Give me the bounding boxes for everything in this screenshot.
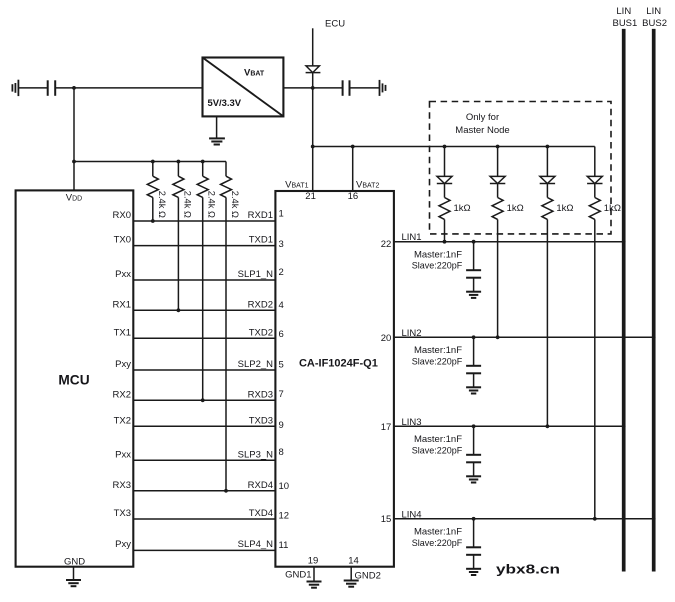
svg-text:LIN: LIN (646, 6, 661, 17)
svg-text:SLP1_N: SLP1_N (238, 269, 274, 280)
svg-text:TX3: TX3 (114, 508, 131, 519)
svg-text:19: 19 (308, 556, 319, 567)
svg-text:9: 9 (279, 420, 284, 431)
svg-text:RXD2: RXD2 (248, 299, 273, 310)
svg-text:17: 17 (381, 422, 392, 433)
node (branch 2 on VBAT rail) (496, 145, 500, 149)
wire (VBAT2 stem, pin 16) (352, 147, 354, 192)
svg-text:20: 20 (381, 333, 392, 344)
svg-text:MCU: MCU (58, 371, 89, 387)
node (branch 1 on VBAT rail) (443, 145, 447, 149)
svg-text:TXD2: TXD2 (249, 327, 273, 338)
svg-text:RXD1: RXD1 (248, 210, 273, 221)
node (branch 3 on VBAT rail) (546, 145, 550, 149)
node (VDD wire junction) (72, 86, 76, 90)
ground (MCU) (73, 567, 75, 580)
ground (GND2) (344, 581, 359, 587)
wire row 12 (Pxy to SLP4_N) (133, 549, 275, 551)
svg-text:Master:1nF: Master:1nF (414, 527, 462, 538)
ground (top-left, sideways) (12, 80, 18, 96)
svg-text:BUS2: BUS2 (642, 18, 667, 29)
svg-text:TXD3: TXD3 (249, 415, 273, 426)
svg-text:7: 7 (279, 389, 284, 400)
capacitor C1 (VDD decoupling, top-left) (48, 80, 56, 96)
svg-text:TX1: TX1 (114, 327, 131, 338)
net LIN BUS2 (vertical bus) (652, 29, 656, 572)
wire (VDD stem into MCU) (73, 162, 75, 191)
svg-text:1kΩ: 1kΩ (556, 203, 573, 214)
svg-text:2.4k Ω: 2.4k Ω (230, 191, 240, 218)
wire row 7 (RX2 to RXD3) (133, 399, 275, 401)
wire (ground to C1) (18, 87, 47, 89)
svg-text:2: 2 (279, 267, 284, 278)
ground (C5) (466, 476, 481, 482)
svg-text:1kΩ: 1kΩ (454, 203, 471, 214)
wire (VBAT1 stem, pin 21) (312, 147, 314, 192)
wire (branch 3 lead) (546, 147, 548, 177)
wire LIN1 (394, 241, 624, 243)
diode D4 (587, 176, 602, 183)
svg-text:BUS1: BUS1 (612, 18, 637, 29)
wire (branch 4 lead) (594, 147, 596, 177)
svg-text:SLP4_N: SLP4_N (238, 539, 274, 550)
svg-text:Pxy: Pxy (115, 359, 131, 370)
svg-text:8: 8 (279, 447, 284, 458)
wire (C2 to ground) (350, 87, 380, 89)
capacitor C4 (LIN2) (472, 335, 476, 339)
wire (branch 3 to LIN3) (546, 219, 548, 426)
svg-text:Pxx: Pxx (115, 449, 131, 460)
svg-text:Master:1nF: Master:1nF (414, 434, 462, 445)
wire (junction to C2) (313, 87, 343, 89)
chip left pin names (238, 210, 274, 550)
svg-text:1kΩ: 1kΩ (507, 203, 524, 214)
svg-text:RX0: RX0 (113, 210, 131, 221)
resistor R8 1k (594, 184, 596, 198)
svg-text:GND1: GND1 (285, 570, 311, 581)
svg-text:10: 10 (279, 481, 290, 492)
wire (regulator output to ECU node) (283, 87, 312, 89)
diode D1 (437, 176, 452, 183)
dashed box (Only for Master Node) (430, 102, 612, 234)
ground (C4) (466, 387, 481, 393)
net LIN BUS1 (vertical bus) (622, 29, 626, 572)
wire (junction down to VDD rail) (73, 88, 75, 162)
resistor R5 1k (444, 184, 446, 198)
capacitor C5 (LIN3) (472, 424, 476, 428)
svg-text:VBAT1: VBAT1 (285, 179, 308, 190)
svg-text:LIN3: LIN3 (402, 417, 422, 428)
svg-text:16: 16 (348, 191, 359, 202)
wire (GND2 stem) (350, 567, 352, 581)
ground (top-right, sideways) (380, 80, 386, 96)
svg-text:4: 4 (279, 300, 284, 311)
wire (branch 4 to LIN4) (594, 219, 596, 518)
wire (branch 1 to LIN1) (444, 219, 446, 241)
wire (GND1 stem) (313, 567, 315, 582)
wire LIN4 (394, 518, 654, 520)
node (VDD rail junction) (72, 160, 76, 164)
resistor R2 2.4k (pull-up RXD2) (177, 162, 179, 177)
resistor R3 2.4k (pull-up RXD3) (202, 162, 204, 177)
node (VBAT2 junction) (351, 145, 355, 149)
wire row 5 (TX1 to TXD2) (133, 337, 275, 339)
ground (GND1) (307, 582, 322, 588)
wire (diode to VBAT rail) (312, 73, 314, 147)
wire (C1 to regulator input) (55, 87, 202, 89)
ground (C6) (466, 569, 481, 575)
svg-text:6: 6 (279, 329, 284, 340)
wire VDD rail (to pull-up resistors) (74, 161, 226, 163)
resistor R7 1k (546, 184, 548, 198)
wire LIN3 (394, 425, 624, 427)
wire row 4 (RX1 to RXD2) (133, 309, 275, 311)
svg-text:Slave:220pF: Slave:220pF (412, 356, 463, 367)
svg-text:Master:1nF: Master:1nF (414, 345, 462, 356)
svg-text:15: 15 (381, 514, 392, 525)
svg-text:12: 12 (279, 510, 290, 521)
svg-text:1kΩ: 1kΩ (604, 203, 621, 214)
svg-text:3: 3 (279, 239, 284, 250)
svg-text:GND: GND (64, 556, 85, 567)
node (VBAT1 junction) (311, 145, 315, 149)
svg-text:RX1: RX1 (113, 299, 131, 310)
svg-text:TX0: TX0 (114, 235, 131, 246)
svg-text:Pxx: Pxx (115, 269, 131, 280)
svg-text:TX2: TX2 (114, 415, 131, 426)
MCU pin labels (113, 210, 132, 550)
diode D5 (ECU reverse-protection) (306, 66, 321, 73)
resistor R6 1k (497, 184, 499, 198)
svg-text:22: 22 (381, 239, 392, 250)
svg-text:21: 21 (305, 191, 316, 202)
svg-text:VBAT2: VBAT2 (356, 179, 379, 190)
svg-text:2.4k Ω: 2.4k Ω (157, 191, 167, 218)
svg-text:RXD3: RXD3 (248, 389, 273, 400)
svg-text:CA-IF1024F-Q1: CA-IF1024F-Q1 (299, 357, 378, 369)
op IC U1 CA-IF1024F-Q1 (box) (275, 191, 394, 567)
svg-text:2.4k Ω: 2.4k Ω (182, 191, 192, 218)
ground (regulator) (216, 116, 218, 138)
svg-text:TXD1: TXD1 (249, 235, 273, 246)
resistor R1 2.4k (pull-up RXD1) (152, 162, 154, 177)
svg-text:11: 11 (279, 540, 289, 551)
chip left pin numbers (279, 208, 290, 551)
wire row 1 (RX0 to RXD1) (133, 220, 275, 222)
capacitor C2 (VBAT decoupling) (343, 80, 350, 96)
svg-text:LIN2: LIN2 (402, 328, 422, 339)
svg-text:1: 1 (279, 208, 284, 219)
wire row 2 (TX0 to TXD1) (133, 245, 275, 247)
svg-text:RXD4: RXD4 (248, 480, 273, 491)
svg-text:SLP2_N: SLP2_N (238, 359, 274, 370)
svg-text:5V/3.3V: 5V/3.3V (208, 98, 242, 108)
wire (ECU down to diode) (312, 28, 314, 65)
svg-text:TXD4: TXD4 (249, 508, 273, 519)
svg-text:VDD: VDD (66, 193, 82, 204)
node (ECU junction) (311, 86, 315, 90)
svg-text:RX3: RX3 (113, 480, 131, 491)
wire row 11 (TX3 to TXD4) (133, 518, 275, 520)
diode D3 (540, 176, 555, 183)
svg-text:VBAT: VBAT (244, 68, 265, 79)
ground (C3) (466, 292, 481, 298)
MCU U3 (box) (16, 190, 134, 566)
svg-text:Master Node: Master Node (455, 125, 509, 136)
wire (branch 2 lead) (497, 147, 499, 177)
regulator U2 (VBAT to 5V/3.3V) (203, 58, 284, 117)
wire (branch 2 to LIN2) (497, 219, 499, 337)
capacitor C6 (LIN4) (472, 517, 476, 521)
svg-text:14: 14 (348, 556, 359, 567)
wire row 9 (Pxx to SLP3_N) (133, 459, 275, 461)
wire (branch 1 lead) (444, 147, 446, 177)
wire VBAT rail (horizontal) (313, 146, 595, 148)
diode D2 (490, 176, 505, 183)
wire row 3 (Pxx to SLP1_N) (133, 279, 275, 281)
resistor R4 2.4k (pull-up RXD4) (225, 162, 227, 177)
svg-text:Master:1nF: Master:1nF (414, 250, 462, 261)
svg-text:Pxy: Pxy (115, 539, 131, 550)
capacitor C3 (LIN1) (472, 240, 476, 244)
svg-text:SLP3_N: SLP3_N (238, 449, 274, 460)
svg-text:Slave:220pF: Slave:220pF (412, 261, 463, 272)
svg-text:Slave:220pF: Slave:220pF (412, 538, 463, 549)
wire row 10 (RX3 to RXD4) (133, 490, 275, 492)
svg-text:Only for: Only for (466, 112, 499, 123)
svg-text:LIN1: LIN1 (402, 232, 422, 243)
svg-text:ECU: ECU (325, 18, 345, 29)
svg-text:2.4k Ω: 2.4k Ω (207, 191, 217, 218)
svg-text:LIN: LIN (616, 6, 631, 17)
svg-text:RX2: RX2 (113, 389, 131, 400)
wire row 8 (TX2 to TXD3) (133, 425, 275, 427)
svg-text:LIN4: LIN4 (402, 509, 422, 520)
svg-text:Slave:220pF: Slave:220pF (412, 445, 463, 456)
wire LIN2 (394, 336, 654, 338)
wire row 6 (Pxy to SLP2_N) (133, 369, 275, 371)
svg-text:ybx8.cn: ybx8.cn (496, 562, 560, 577)
svg-text:5: 5 (279, 359, 284, 370)
